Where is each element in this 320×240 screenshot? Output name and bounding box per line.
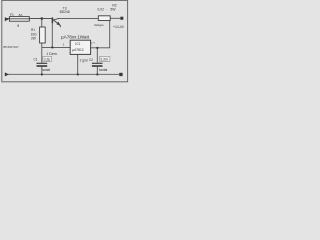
svg-text:·: · — [106, 8, 107, 12]
svg-text:tantal: tantal — [99, 68, 108, 72]
svg-text:drahtgew.: drahtgew. — [94, 24, 104, 27]
svg-text:1 Dem: 1 Dem — [46, 52, 57, 56]
svg-text:tantal: tantal — [42, 68, 51, 72]
svg-text:2,2µ: 2,2µ — [44, 58, 50, 62]
svg-text:BD246: BD246 — [60, 10, 70, 14]
svg-text:1Watt: 1Watt — [77, 35, 90, 40]
svg-text:2W: 2W — [31, 37, 36, 41]
svg-text:0,02: 0,02 — [98, 8, 105, 12]
svg-text:C1: C1 — [34, 58, 38, 62]
svg-text:F1: F1 — [10, 13, 14, 17]
svg-text:u +: u + — [91, 41, 96, 45]
svg-text:µA78xx: µA78xx — [61, 35, 77, 40]
svg-text:+14,4V: +14,4V — [113, 25, 125, 29]
svg-text:µA7812: µA7812 — [72, 48, 84, 52]
svg-text:IC1: IC1 — [75, 42, 80, 46]
svg-text:5W: 5W — [110, 8, 116, 12]
svg-text:1: 1 — [63, 43, 65, 47]
svg-text:2,2m: 2,2m — [100, 58, 108, 62]
svg-text:C2: C2 — [89, 58, 93, 62]
svg-text:R2: R2 — [112, 3, 116, 7]
svg-text:85 064 5A7: 85 064 5A7 — [3, 45, 19, 49]
svg-text:2 gnd: 2 gnd — [80, 59, 88, 63]
svg-text:8: 8 — [17, 24, 19, 28]
